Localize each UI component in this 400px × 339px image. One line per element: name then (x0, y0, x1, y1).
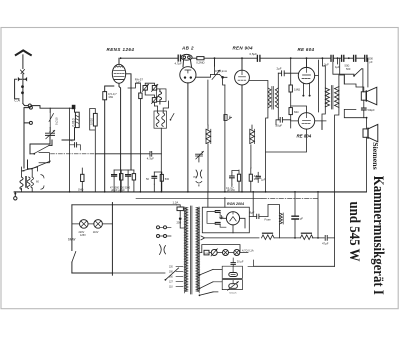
resistor R3 (139, 93, 142, 99)
resistor zigzag 1 (262, 235, 275, 240)
bus capacitor 1uF (342, 55, 344, 61)
svg-text:Umsch: Umsch (230, 292, 238, 294)
svg-text:500: 500 (165, 177, 170, 181)
electrolytic blob cap (72, 105, 76, 109)
connector box 2 wires (222, 280, 242, 290)
grid wiring cluster (128, 83, 155, 192)
grid resistor 1M (289, 85, 292, 92)
wire bus right corner down (338, 58, 368, 87)
potentiometer P2 (152, 86, 156, 91)
coil core lines (25, 176, 26, 187)
tone switch (354, 69, 362, 76)
chassis dash-dot line (136, 197, 262, 199)
svg-text:250: 250 (177, 221, 182, 225)
coupling cap 1uF (256, 176, 260, 178)
RF choke L4 (250, 129, 255, 168)
T2 core (331, 86, 333, 110)
fuse 1.2A (177, 207, 183, 211)
svg-text:125V: 125V (80, 234, 86, 237)
connector block 2 (229, 284, 238, 289)
wire antenna lead-in (22, 55, 24, 69)
cap 500uF (292, 216, 298, 219)
wire V4 to output stage (315, 60, 319, 112)
coil 0.010 #2 (75, 112, 79, 127)
svg-text:μF MΩ: μF MΩ (227, 189, 235, 192)
wire grid feed (224, 85, 226, 192)
rectifier tube V6 (226, 212, 239, 225)
wire R1 (105, 86, 114, 192)
coupling cap 2uF (282, 71, 285, 76)
cap 8uF (257, 214, 259, 218)
tube V3 internals (238, 70, 246, 80)
svg-text:pF: pF (370, 60, 373, 64)
smoothing caps in box (215, 211, 220, 213)
filter choke L5 (279, 213, 282, 224)
wire vertical 295 (294, 192, 296, 238)
wire AB2 cathode down (187, 83, 189, 192)
rectifier unit box (202, 207, 249, 233)
wire vertical 318 (317, 192, 319, 238)
resistor zigzag 2 (300, 235, 313, 240)
potentiometer P1 (143, 86, 147, 91)
wire V3 cathode down (241, 85, 243, 192)
svg-text:20 μF: 20 μF (237, 259, 244, 263)
svg-text:50kpF: 50kpF (368, 108, 376, 112)
svg-text:REN 904: REN 904 (233, 46, 254, 51)
cathode capacitor 50uF (152, 176, 157, 178)
T3 tap arrows (176, 266, 183, 286)
small coupling cap mid-left (75, 143, 77, 147)
svg-text:Fuse: Fuse (265, 217, 272, 221)
T3 secondary winding (196, 207, 199, 293)
coil bracket curves (41, 175, 44, 190)
svg-text:MΩ: MΩ (109, 95, 113, 99)
wire switch to coils (24, 123, 52, 169)
series resistor 0.2M on bus (197, 57, 204, 60)
bus capacitor 50/500 (354, 55, 356, 61)
wire AB2 envelope to oval (183, 60, 192, 67)
wire right vertical long (254, 265, 335, 267)
spark gap arrester (20, 78, 26, 80)
heater switch contacts (200, 269, 214, 275)
wire V4 anode (306, 58, 308, 67)
pickup terminals (157, 226, 160, 229)
wire bus to rect box (225, 192, 253, 217)
potentiometer P3 (152, 98, 156, 103)
HT line with arrow (201, 236, 259, 240)
second cluster resistor (249, 174, 252, 181)
series cap 47uF (325, 236, 327, 241)
coil 0.010 #1 (49, 112, 54, 127)
wire coil bottoms (50, 128, 74, 140)
RF choke L3 (206, 129, 211, 143)
IF coil box with circles (154, 111, 167, 128)
wave switch contact 1 (34, 146, 49, 154)
wires T2 (322, 58, 344, 266)
speaker LS1 (361, 92, 366, 100)
antenna terminal circle (28, 104, 31, 107)
svg-text:500: 500 (346, 67, 351, 71)
svg-text:0,2MΩ: 0,2MΩ (196, 61, 204, 65)
mains block top wire (72, 204, 113, 206)
wire V5 cathode down (266, 129, 307, 152)
svg-text:2μF: 2μF (277, 67, 282, 71)
wires LS2 (366, 118, 368, 192)
svg-text:μF: μF (300, 217, 304, 221)
svg-text:8μF: 8μF (250, 211, 255, 215)
resistor R1 0.5-0.7M (103, 92, 107, 100)
T3 core (190, 206, 192, 294)
cathode resistor 0.5M (160, 174, 163, 181)
wires LS1 (344, 75, 364, 118)
grid leak cluster caps (230, 176, 235, 178)
series capacitor 47pF on bus (178, 55, 180, 61)
input terminal circles (29, 106, 32, 109)
wire coil tops (50, 108, 74, 112)
cap 20uF heater (231, 263, 235, 265)
pilot lamp 2 (223, 250, 229, 256)
wire mid vertical (207, 80, 209, 125)
mid wire (96, 153, 161, 155)
junction dots on bus (322, 57, 324, 59)
svg-text:0,010: 0,010 (90, 118, 94, 125)
junction dots top bus (120, 57, 122, 59)
resistor lower (289, 108, 292, 115)
arrester side wire (15, 79, 19, 99)
mains switch (72, 252, 76, 263)
svg-text:1μF: 1μF (261, 179, 266, 182)
wire (22, 74, 24, 104)
svg-text:0,5(1)mA: 0,5(1)mA (215, 69, 227, 73)
svg-text:47μF: 47μF (322, 241, 329, 245)
wire block to transformer (112, 205, 176, 273)
wire R2 (90, 109, 96, 192)
diode AB2 top cap oval (181, 54, 192, 60)
tube V1 internals (116, 66, 123, 68)
dial lamp 2 (94, 220, 103, 229)
svg-text:1MΩ: 1MΩ (78, 189, 83, 192)
tube V3 REN904 envelope (235, 70, 250, 85)
connector box wires (222, 266, 242, 278)
mains block bottom wire (72, 272, 113, 274)
arrester electrode dots (21, 85, 24, 88)
speaker LS1 cap (362, 108, 367, 110)
switch antenna series (21, 70, 25, 74)
svg-text:1,2A: 1,2A (173, 200, 179, 204)
phone jack prongs (196, 170, 202, 178)
svg-text:0,010: 0,010 (55, 117, 59, 125)
selector switch arm (165, 268, 178, 280)
bracket curves (160, 245, 166, 255)
heater row top wire (202, 245, 240, 253)
wave switch contact 2 (32, 161, 51, 169)
variable trimmer (196, 154, 203, 156)
bus capacitor 500pF (365, 55, 367, 61)
wire V5 grid left (291, 106, 307, 121)
bias cap 20uF (280, 117, 282, 122)
tube V5 internals (302, 113, 311, 124)
wire V5 anode to right (315, 121, 326, 130)
bus capacitor 2uF (331, 55, 333, 61)
svg-text:0,010: 0,010 (71, 118, 75, 126)
output transformer T2 primary (325, 88, 329, 107)
mains left rail with switch (71, 205, 73, 273)
svg-text:Siemens: Siemens (371, 142, 379, 170)
lamp row wires (199, 252, 248, 254)
IF coil pair (156, 113, 165, 127)
svg-text:und 545 W: und 545 W (346, 202, 362, 263)
tube V2 internals (185, 70, 191, 73)
series cap on mid wire (150, 151, 152, 156)
tube V4 RE604 envelope (298, 67, 314, 83)
HT line right (274, 237, 334, 239)
wire V3 anode to bus (241, 58, 243, 70)
mains right rail (111, 203, 113, 276)
svg-text:6MW: 6MW (68, 238, 75, 242)
T2 secondary (335, 87, 339, 108)
svg-text:20μF: 20μF (276, 123, 283, 127)
tube V4 internals (302, 67, 311, 78)
wires T1 (249, 73, 278, 192)
wires IF coil (155, 101, 169, 192)
wire terminals to left rail (24, 108, 29, 123)
svg-text:0,5μF: 0,5μF (250, 52, 258, 56)
resistor R2 0.1M left (93, 113, 97, 126)
junction dots on ground bus (69, 191, 71, 193)
svg-text:4,7μF: 4,7μF (175, 62, 182, 66)
svg-text:RGN 2004: RGN 2004 (227, 202, 244, 206)
resistor R left of bank (81, 174, 84, 181)
T1 core (272, 87, 273, 110)
lamp wiring (72, 223, 113, 225)
connector block 1 (229, 273, 238, 277)
coil L2 3-loop (158, 92, 161, 100)
V4 pins (303, 83, 309, 94)
tube V2 AB2 envelope (180, 67, 196, 83)
top bus (121, 57, 365, 59)
svg-text:μF pF μF pF: μF pF μF pF (111, 189, 125, 192)
wire var cap down (43, 138, 50, 145)
V6 filament (230, 212, 236, 221)
resistor box U16 (204, 250, 209, 255)
wire tuner vertical (69, 108, 71, 192)
svg-text:4,7μF: 4,7μF (147, 156, 154, 160)
svg-text:RE 804: RE 804 (297, 134, 312, 139)
variable capacitor tuning (46, 132, 55, 138)
speaker LS2 (363, 129, 368, 137)
wires rectifier (220, 218, 245, 233)
svg-text:RENS 1264: RENS 1264 (107, 47, 135, 52)
decoupling capacitor bank (112, 175, 117, 177)
tube V5 RE804 envelope (298, 113, 314, 129)
switch frame box (39, 153, 49, 163)
svg-text:4,7Ω 0,1A: 4,7Ω 0,1A (242, 248, 254, 252)
wire coils to bus (22, 167, 38, 192)
antenna coupling coil primary (20, 177, 23, 189)
svg-text:RE 604: RE 604 (298, 47, 315, 52)
dial lamp 1 (80, 220, 89, 229)
svg-text:C.A: C.A (14, 99, 20, 103)
ground bus bottom (14, 191, 366, 193)
rheostat lamp (211, 250, 217, 256)
tube V1 RENS1264 envelope (112, 64, 125, 83)
svg-text:1MΩ: 1MΩ (294, 88, 301, 92)
series cap 0.5uF on bus (257, 55, 260, 61)
pilot lamp 3 (234, 250, 240, 256)
wire antenna to tuner (23, 104, 28, 106)
power transformer T3 primary winding (185, 207, 188, 293)
ground terminal (14, 192, 16, 197)
wire V1 anode to top bus (118, 58, 120, 64)
interstage transformer T1 primary (268, 88, 271, 108)
grid resistor column (224, 115, 227, 121)
svg-text:7Ω: 7Ω (193, 175, 197, 179)
svg-text:Kammermusikgerät I: Kammermusikgerät I (370, 176, 386, 295)
antenna (16, 50, 31, 55)
svg-text:AB 2: AB 2 (181, 46, 194, 51)
svg-text:110V: 110V (93, 231, 99, 234)
wire V1 cathode down (119, 74, 131, 192)
wires resistor column (290, 58, 292, 120)
junction dot (179, 217, 182, 220)
antenna coupling coil secondary (27, 177, 33, 189)
mid line dash-dot (51, 153, 97, 155)
T1 secondary (275, 88, 278, 108)
